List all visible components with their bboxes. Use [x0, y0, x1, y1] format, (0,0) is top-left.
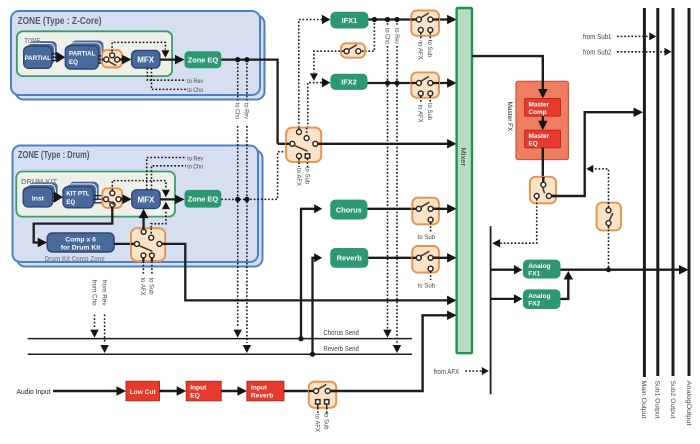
- switch S1 (tone MFX bypass): [102, 50, 122, 67]
- zone Z-Core box (back layer): [16, 16, 265, 100]
- junction node IFX1 to Rev: [394, 17, 399, 22]
- zone Drum box (back layer): [17, 150, 263, 267]
- dotted tap switch to analog FX line: [608, 226, 610, 268]
- svg-text:to Sub: to Sub: [148, 278, 155, 295]
- svg-text:Low Cut: Low Cut: [130, 389, 157, 396]
- TONE box: [17, 31, 172, 76]
- dotted rail IFX to Cho: [387, 20, 389, 27]
- switch S6 (IFX2 out routing): [411, 72, 439, 97]
- svg-text:to Cho: to Cho: [234, 103, 241, 119]
- svg-text:for Drum Kit: for Drum Kit: [61, 245, 101, 252]
- svg-text:Audio Input: Audio Input: [17, 387, 51, 396]
- svg-text:from Rev: from Rev: [100, 280, 107, 307]
- svg-text:Inst: Inst: [32, 195, 45, 202]
- block Zone EQ (Z-Core): [185, 51, 222, 68]
- arrow Master Comp to Master EQ: [542, 116, 544, 123]
- svg-text:Analog: Analog: [528, 293, 550, 300]
- svg-text:to Sub: to Sub: [418, 283, 436, 290]
- junction node IFX2 to Rev: [394, 80, 399, 85]
- svg-text:Input: Input: [251, 384, 268, 391]
- block Chorus: [330, 200, 367, 220]
- block Analog FX1: [523, 260, 561, 279]
- wire Zone EQ output to zone switch: [221, 60, 277, 144]
- svg-text:Zone EQ: Zone EQ: [188, 56, 219, 65]
- svg-text:from Cho: from Cho: [90, 280, 97, 306]
- svg-text:to AFX: to AFX: [417, 42, 424, 61]
- dotted wire IFX1 tap to series switch: [362, 20, 375, 52]
- block Comp x 6 for Drum Kit: [47, 233, 114, 252]
- dotted stub to Sub (Chorus): [430, 223, 432, 232]
- junction node IFX2 to Cho: [385, 80, 390, 85]
- svg-text:MFX: MFX: [137, 56, 155, 65]
- svg-text:to Rev: to Rev: [393, 28, 400, 45]
- block Low Cut: [126, 381, 160, 401]
- junction node on drum zone line: [235, 197, 240, 202]
- dotted to Sub (zone switch): [307, 159, 309, 167]
- svg-text:Reverb: Reverb: [337, 254, 363, 263]
- dotted stub to AFX (IFX1): [420, 33, 422, 41]
- svg-text:to Cho: to Cho: [383, 28, 390, 44]
- svg-text:Sub1 Output: Sub1 Output: [654, 381, 661, 419]
- svg-text:Master FX: Master FX: [506, 102, 513, 132]
- switch S7 (zone output routing): [286, 128, 321, 162]
- dotted tap switch to main line: [593, 169, 609, 208]
- Main Output line: [643, 8, 646, 377]
- comp return dotted with up arrow: [151, 210, 166, 235]
- kit bypass dotted with down arrow: [112, 181, 166, 191]
- wire drum MFX to Zone EQ: [160, 198, 177, 200]
- wire master switch to Main Output: [552, 112, 637, 196]
- Chorus Send bus: [28, 338, 412, 340]
- svg-text:to Sub: to Sub: [426, 40, 433, 57]
- wire Z-Core feed into zone switch: [278, 143, 290, 145]
- svg-text:EQ: EQ: [66, 199, 75, 206]
- wire Chorus to switch: [367, 208, 415, 210]
- wire Low Cut to Input EQ: [160, 390, 180, 392]
- dotted to AFX (zone switch): [298, 159, 300, 167]
- Sub1 Output line: [656, 8, 659, 376]
- block PARTIAL (stacked): [29, 41, 57, 63]
- svg-text:to Rev: to Rev: [187, 78, 203, 85]
- block Input Reverb: [247, 381, 284, 401]
- wire input switch to mixer: [331, 315, 450, 391]
- dotted send to Rev (Z-Core MFX): [147, 68, 186, 80]
- wire Master EQ to master switch: [542, 148, 544, 182]
- svg-text:Chorus Send: Chorus Send: [323, 328, 359, 337]
- wire switch to drum MFX: [121, 198, 127, 200]
- block Reverb: [330, 248, 368, 268]
- switch S10 (master out): [530, 177, 556, 204]
- wire chorus return up to Chorus block: [298, 336, 303, 341]
- Reverb Send bus: [28, 353, 412, 355]
- svg-text:FX2: FX2: [528, 301, 540, 308]
- dotted send to Rev (drum MFX): [147, 158, 186, 190]
- svg-text:to AFX: to AFX: [314, 414, 321, 433]
- junction node IFX1 to Cho: [385, 17, 390, 22]
- block Master Comp: [525, 99, 561, 117]
- svg-text:to AFX: to AFX: [417, 105, 424, 124]
- wire Input EQ to Input Reverb: [221, 390, 240, 392]
- dotted rail to Rev (x=246.9): [246, 60, 248, 101]
- svg-text:from AFX: from AFX: [434, 367, 460, 376]
- block PARTIAL EQ (stacked): [71, 40, 104, 63]
- svg-text:Reverb Send: Reverb Send: [323, 344, 359, 353]
- wire Comp to comp switch: [114, 243, 134, 245]
- wire MFX to Zone EQ: [160, 58, 178, 60]
- switch S12 (input routing): [309, 382, 336, 408]
- dotted rail IFX to Rev: [396, 20, 398, 27]
- wire Audio Input to Low Cut: [53, 390, 120, 392]
- svg-text:TONE: TONE: [24, 36, 40, 45]
- svg-text:IFX1: IFX1: [342, 16, 358, 25]
- wire Chorus switch to mixer: [434, 208, 451, 210]
- junction node to Rev tap: [244, 57, 249, 62]
- svg-text:to Sub: to Sub: [303, 167, 310, 184]
- wire IFX1 output to mixer: [368, 18, 450, 20]
- svg-text:FX1: FX1: [528, 271, 540, 278]
- block MFX (Z-Core): [132, 51, 160, 69]
- wire IFX2 output to mixer: [368, 82, 451, 84]
- svg-text:Comp: Comp: [529, 109, 547, 116]
- svg-text:from Sub2: from Sub2: [583, 49, 612, 56]
- dotted rail to Cho (x=237.7): [237, 60, 239, 101]
- dotted from Sub2 arrow: [617, 51, 665, 53]
- wire mixer to Master Comp: [472, 56, 543, 91]
- block Master EQ: [525, 130, 561, 148]
- multi-wire arrow PARTIAL to PARTIAL EQ: [52, 53, 60, 55]
- dotted stub to Sub (IFX2): [429, 96, 431, 103]
- svg-text:ZONE (Type : Drum): ZONE (Type : Drum): [18, 150, 90, 161]
- switch S9 (Reverb out): [412, 246, 439, 273]
- switch S11 (analog out tap): [597, 203, 622, 231]
- svg-text:Drum Kit Comp Zone: Drum Kit Comp Zone: [45, 256, 105, 263]
- svg-text:to Rev: to Rev: [243, 103, 250, 120]
- wire Input Reverb to input switch: [284, 390, 314, 392]
- block IFX1: [330, 12, 368, 29]
- dotted to AFX (comp switch): [142, 261, 144, 275]
- switch S5 (IFX1 out routing): [411, 11, 439, 36]
- switch S2 (kit MFX bypass): [102, 188, 122, 208]
- arrow onto Reverb Send: [243, 345, 252, 353]
- dotted stub to Sub (Reverb): [430, 272, 432, 280]
- block KIT PTL EQ (stacked): [69, 181, 100, 202]
- wire Analog FX2 output merge: [561, 278, 569, 299]
- svg-text:to AFX: to AFX: [139, 278, 146, 297]
- Mixer block: [457, 8, 472, 353]
- dotted wire into IFX1: [299, 20, 324, 132]
- dotted send to Cho (Z-Core MFX): [152, 68, 187, 89]
- svg-text:PARTIAL: PARTIAL: [69, 51, 96, 58]
- svg-text:AnalogOutput: AnalogOutput: [685, 381, 692, 426]
- dotted stub to AFX (input): [317, 408, 319, 413]
- dotted send to Cho (drum MFX): [152, 166, 187, 190]
- svg-text:to Sub: to Sub: [323, 413, 330, 430]
- block Analog FX2: [523, 289, 561, 309]
- wire comp switch output to mixer: [162, 244, 450, 301]
- svg-text:to Sub: to Sub: [418, 234, 436, 241]
- dotted to Sub (comp switch): [151, 261, 153, 275]
- svg-text:Chorus: Chorus: [336, 205, 362, 214]
- svg-text:Sub2 Output: Sub2 Output: [669, 381, 676, 419]
- Master FX box: [516, 81, 568, 159]
- svg-text:to Cho: to Cho: [187, 87, 203, 94]
- svg-text:Input: Input: [190, 384, 207, 391]
- wire comp switch to drum MFX (up arrow): [142, 215, 144, 230]
- junction node to Cho tap: [235, 57, 240, 62]
- svg-text:from Sub1: from Sub1: [583, 34, 612, 41]
- wire Analog FX1 output to Analog Output: [561, 269, 683, 271]
- svg-text:ZONE (Type : Z-Core): ZONE (Type : Z-Core): [18, 16, 102, 27]
- block Input EQ: [186, 381, 221, 401]
- Sub2 Output line: [672, 8, 675, 376]
- wire AFX bus to Analog FX1: [491, 269, 516, 271]
- dotted wire series switch to IFX2 input (down arrow): [314, 51, 344, 72]
- svg-text:EQ: EQ: [529, 141, 538, 148]
- svg-text:DRUM KIT: DRUM KIT: [21, 177, 58, 186]
- wire Reverb switch to mixer: [434, 257, 451, 259]
- wire AFX bus to Analog FX2: [491, 298, 516, 300]
- dotted from Cho with arrow: [94, 315, 96, 329]
- wire zone switch output to mixer: [318, 143, 450, 145]
- switch S8 (Chorus out): [412, 198, 439, 225]
- dotted from AFX arrow: [465, 370, 482, 372]
- svg-text:KIT PTL: KIT PTL: [66, 190, 90, 197]
- junction node on drum zone line 2: [244, 197, 249, 202]
- svg-text:Zone EQ: Zone EQ: [188, 195, 219, 204]
- DRUM KIT box: [16, 172, 175, 217]
- multi-wire PARTIAL EQ to switch: [98, 55, 104, 57]
- svg-text:EQ: EQ: [190, 392, 200, 399]
- multi-wire arrow Inst to KIT PTL EQ: [53, 193, 57, 195]
- svg-text:Main Output: Main Output: [640, 381, 647, 419]
- wire switch to MFX: [120, 58, 127, 60]
- svg-text:Comp x 6: Comp x 6: [65, 237, 96, 244]
- block IFX2: [330, 74, 367, 90]
- dotted stub to Sub (input): [326, 408, 328, 413]
- switch S4 (IFX series): [341, 43, 365, 57]
- wire reverb return up to Reverb block: [310, 352, 315, 357]
- svg-text:EQ: EQ: [69, 59, 78, 66]
- svg-text:to Rev: to Rev: [187, 155, 203, 162]
- svg-text:MFX: MFX: [137, 195, 155, 204]
- svg-text:IFX2: IFX2: [341, 77, 357, 86]
- bypass dotted wire with down arrow: [112, 42, 165, 51]
- Analog Output line: [688, 8, 691, 376]
- dotted wire into IFX2: [308, 83, 324, 136]
- zone Drum box: [13, 146, 259, 263]
- block MFX (Drum): [132, 190, 160, 209]
- svg-text:Reverb: Reverb: [251, 392, 273, 399]
- svg-text:Mixer: Mixer: [459, 148, 468, 167]
- dotted stub to Sub (IFX1): [429, 33, 431, 41]
- svg-text:Master: Master: [529, 102, 550, 109]
- svg-text:PARTIAL: PARTIAL: [25, 55, 52, 62]
- arrow onto Chorus Send: [233, 330, 242, 338]
- svg-text:to AFX: to AFX: [295, 168, 302, 187]
- block Inst (stacked): [29, 182, 58, 202]
- multi-wire KIT PTL EQ to switch: [94, 195, 105, 197]
- wire Reverb to switch: [368, 257, 415, 259]
- block Zone EQ (Drum): [185, 190, 222, 208]
- zone Z-Core box: [11, 11, 260, 95]
- dotted stub to AFX (IFX2): [420, 96, 422, 103]
- dotted from Rev with arrow: [104, 315, 106, 344]
- wire kit switch to Comp: [34, 207, 113, 242]
- AFX bus: [490, 226, 492, 394]
- dotted from Sub1 arrow: [617, 35, 650, 37]
- svg-text:Analog: Analog: [528, 263, 550, 270]
- dotted wire drum Zone EQ output to zone switch: [221, 152, 286, 200]
- svg-text:to Sub: to Sub: [426, 103, 433, 120]
- switch S3 (drum comp routing): [131, 228, 165, 261]
- svg-text:to Cho: to Cho: [187, 164, 203, 171]
- dotted master switch to AFX bus: [501, 199, 537, 243]
- junction node IFX1 serial tap: [372, 17, 377, 22]
- svg-text:Master: Master: [529, 133, 550, 140]
